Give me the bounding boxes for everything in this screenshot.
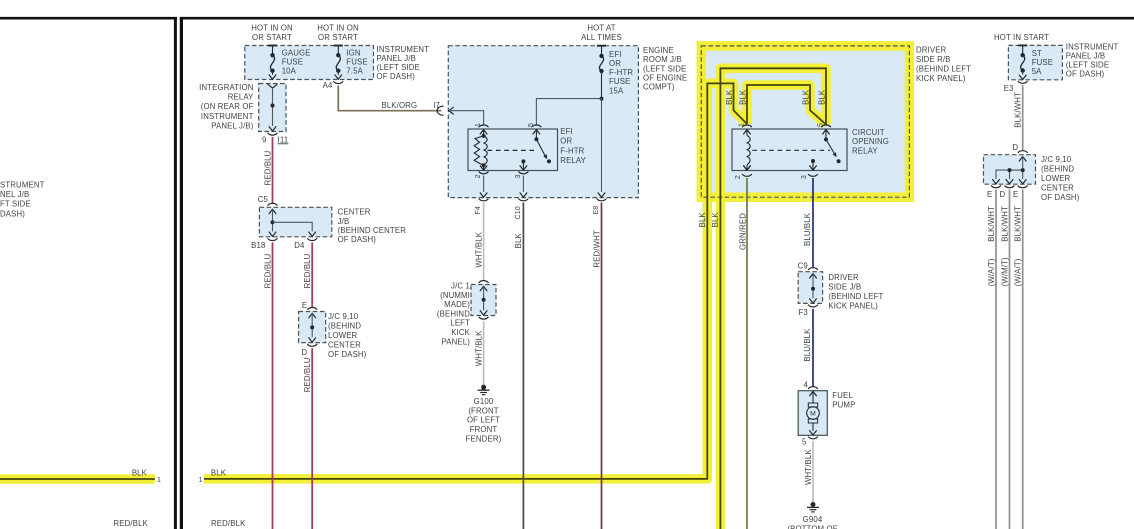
center J/B exit arrow B18	[269, 232, 276, 236]
connector cup C5	[268, 203, 277, 205]
COR switch lead	[825, 130, 827, 140]
COR pin3 exit arrow	[810, 166, 817, 170]
wire: BLK loop pin1 to pin5	[747, 85, 826, 125]
svg-text:1: 1	[198, 477, 202, 484]
wire RED/BLU I11 to C5	[272, 137, 274, 203]
COR coil winding	[746, 130, 748, 136]
svg-text:1: 1	[475, 123, 482, 127]
wire WHT/BLK F4 to J/C 1	[483, 203, 485, 281]
connector cup I7	[437, 106, 443, 115]
svg-text:A4: A4	[323, 81, 333, 90]
svg-text:9: 9	[262, 135, 267, 144]
arrow ign fuse exit	[335, 75, 342, 79]
connector cup D (right J/C)	[1018, 151, 1027, 153]
svg-text:(W/A/T): (W/A/T)	[1014, 258, 1023, 286]
left page right border	[174, 17, 177, 529]
connector cup E8	[597, 199, 606, 201]
driver side J/B internal wire	[812, 274, 814, 299]
wire WHT/BLK J/C1 to G100	[483, 321, 485, 385]
J/C 9,10 right box	[984, 155, 1036, 185]
COR coil entry arrow	[744, 130, 751, 134]
wire BLK/WHT E3 to J/C 9,10	[1022, 85, 1024, 151]
svg-text:RED/WHT: RED/WHT	[592, 230, 601, 268]
J/C 9,10 left exit arrow	[309, 338, 316, 342]
wire BLK/WHT (W/A/T) right	[1022, 190, 1024, 529]
svg-text:C5: C5	[258, 195, 269, 204]
left page top border	[0, 17, 177, 20]
svg-text:E: E	[987, 190, 992, 199]
svg-text:C10: C10	[515, 206, 522, 219]
highlight: BLK wire to relay pin 5	[720, 68, 826, 529]
COR actuation dashed link	[752, 149, 830, 151]
svg-text:(W/A/T): (W/A/T)	[987, 258, 996, 286]
svg-text:BLK: BLK	[725, 89, 734, 105]
fuse GAUGE FUSE 10A	[272, 46, 274, 56]
J/C 9,10 left node	[310, 325, 314, 329]
EFI relay pin3 exit arrow	[520, 166, 527, 170]
COR switch pivot node	[824, 138, 828, 142]
driver side J/B exit arrow	[810, 299, 817, 303]
fuse IGN FUSE 7.5A	[337, 46, 339, 56]
integration relay node	[271, 104, 275, 108]
svg-text:BLK: BLK	[817, 89, 826, 105]
connector cup COR pin 1	[742, 125, 751, 127]
svg-text:DRIVERSIDE R/B(BEHIND LEFTKICK: DRIVERSIDE R/B(BEHIND LEFTKICK PANEL)	[916, 46, 971, 84]
svg-text:BLK: BLK	[132, 469, 148, 478]
svg-text:HOT ATALL TIMES: HOT ATALL TIMES	[581, 23, 622, 42]
connector cup A4	[334, 82, 343, 84]
svg-text:BLK/WHT: BLK/WHT	[987, 206, 996, 242]
internal wire from fuse down to E8	[601, 99, 603, 192]
J/B exit arrow E8	[598, 193, 605, 197]
svg-text:I7: I7	[433, 101, 440, 110]
svg-text:BLU/BLK: BLU/BLK	[803, 212, 812, 246]
wire: BLK V2 to relay pin 5	[720, 68, 826, 529]
highlight: BLK wire to relay pin 1 and bus	[204, 83, 747, 479]
svg-text:HOT IN START: HOT IN START	[994, 33, 1049, 42]
relay box CIRCUIT OPENING RELAY	[732, 129, 847, 171]
EFI relay switch lead	[535, 130, 537, 140]
svg-text:2: 2	[735, 175, 742, 179]
svg-text:INSTRUMENTPANEL J/B(LEFT SIDEO: INSTRUMENTPANEL J/B(LEFT SIDEOF DASH)	[377, 45, 430, 81]
svg-text:GRN/RED: GRN/RED	[738, 213, 747, 250]
J/B exit arrow C10	[520, 193, 527, 197]
svg-text:BLK/ORG: BLK/ORG	[381, 101, 417, 110]
EFI relay pin 3 node	[521, 159, 525, 163]
svg-text:BLK: BLK	[211, 469, 227, 478]
EFI relay coil node top	[482, 134, 486, 138]
integration relay internal wire	[272, 88, 274, 126]
svg-text:C9: C9	[798, 262, 808, 271]
svg-text:BLK: BLK	[738, 89, 747, 105]
center J/B entry arrow	[269, 209, 276, 213]
svg-text:F3: F3	[798, 308, 807, 317]
wire: left page BLK bus	[0, 478, 155, 480]
EFI relay switch blade	[536, 139, 545, 156]
engine room J/B entry arrow (I7)	[449, 107, 453, 114]
J/C 1 node	[482, 298, 486, 302]
COR switch blade	[826, 140, 835, 154]
right J/C exit arrows	[993, 180, 1000, 184]
J/C 9,10 left internal wire	[311, 313, 313, 337]
svg-text:4: 4	[804, 380, 809, 389]
main page left border	[180, 17, 183, 529]
connector cup relay pin 5	[532, 125, 541, 127]
connector cup F4	[479, 199, 488, 201]
main page top border	[180, 17, 1134, 20]
highlight: left page BLK bus	[0, 474, 155, 484]
svg-text:1: 1	[157, 477, 161, 484]
J/C 1 box	[471, 285, 496, 316]
EFI relay switch contact node	[547, 159, 551, 163]
wire RED/BLU below J/C 9,10 to page bottom	[311, 348, 313, 529]
connector cup C10	[519, 199, 528, 201]
svg-text:BLK/WHT: BLK/WHT	[1001, 206, 1010, 242]
wire BLU/BLK F3 to fuel pump	[812, 309, 814, 387]
internal wire from fuse to relay pin 5	[536, 99, 601, 125]
wire BLU/BLK from COR pin 3 to C9	[812, 178, 814, 268]
svg-text:BLK/WHT: BLK/WHT	[1014, 92, 1023, 128]
COR switch entry arrow	[823, 130, 830, 134]
EFI relay switch entry arrow	[533, 130, 540, 134]
COR switch contact node	[837, 159, 841, 163]
svg-text:WHT/BLK: WHT/BLK	[474, 231, 483, 267]
right J/C internal bus	[996, 170, 1023, 179]
EFI relay actuation dashed link	[488, 149, 535, 151]
svg-text:2: 2	[475, 174, 482, 178]
connector cup J/C 1 top	[479, 281, 488, 283]
highlight: BLK loop pin1-pin5	[747, 85, 826, 125]
center J/B node	[271, 220, 275, 224]
svg-text:BLK: BLK	[801, 89, 810, 105]
svg-text:1: 1	[738, 123, 745, 127]
svg-text:BLK: BLK	[514, 233, 523, 249]
connector cup fuel pump pin 5	[808, 437, 817, 439]
svg-text:BLK: BLK	[711, 212, 720, 228]
wire GRN/RED from COR pin 2 to page bottom	[746, 178, 748, 529]
svg-text:FUELPUMP: FUELPUMP	[832, 391, 855, 410]
svg-text:BLU/BLK: BLU/BLK	[803, 328, 812, 362]
ST fuse feed T-bar	[1018, 44, 1027, 46]
svg-text:D: D	[1000, 190, 1006, 199]
EFI relay coil entry arrow	[480, 130, 487, 134]
connector cup D4	[308, 239, 317, 241]
ST fuse exit arrow	[1019, 75, 1026, 79]
EFI relay pin 3 lead	[522, 161, 524, 170]
internal wire from I7 to relay pin 1	[449, 111, 484, 125]
svg-text:INSTRUMENTPANEL J/B(LEFT SIDEO: INSTRUMENTPANEL J/B(LEFT SIDEOF DASH)	[1066, 43, 1119, 79]
svg-text:5: 5	[817, 123, 824, 127]
svg-text:E8: E8	[593, 206, 600, 215]
svg-text:3: 3	[801, 175, 808, 179]
right J/C internal wire down	[1022, 157, 1024, 179]
connector cup F3	[808, 305, 817, 307]
wire RED/BLU from D4 to J/C 9,10	[311, 242, 313, 307]
internal wire pin2 to F4	[483, 175, 485, 192]
connector cup D (J/C 9,10)	[308, 344, 317, 346]
center J/B internal wire down	[272, 209, 274, 231]
connector cup COR pin 5	[821, 125, 830, 127]
integration relay entry chevron	[268, 84, 277, 88]
svg-text:RED/BLU: RED/BLU	[263, 150, 272, 185]
EFI relay coil winding	[484, 136, 488, 165]
svg-text:RED/BLK: RED/BLK	[114, 519, 149, 528]
svg-text:J/C 1(NUMMIMADE)(BEHINDLEFTKIC: J/C 1(NUMMIMADE)(BEHINDLEFTKICKPANEL)	[437, 282, 471, 347]
svg-text:CENTERJ/B(BEHIND CENTEROF DASH: CENTERJ/B(BEHIND CENTEROF DASH)	[338, 208, 407, 244]
internal wire pin3 to C10	[522, 175, 524, 192]
svg-text:BLK: BLK	[698, 212, 707, 228]
wire BLK/WHT (W/A/T) left	[995, 190, 997, 529]
svg-text:3: 3	[515, 174, 522, 178]
ground G904	[811, 502, 816, 507]
instrument panel J/B box (gauge+ign fuses)	[245, 46, 374, 80]
instrument panel J/B box (ST fuse)	[1008, 45, 1062, 79]
center J/B box	[259, 207, 331, 237]
svg-text:D4: D4	[294, 241, 305, 250]
svg-text:M: M	[810, 411, 816, 418]
connector cup COR pin 2	[742, 174, 751, 176]
svg-text:D: D	[1012, 143, 1018, 152]
J/C 1 entry arrow	[480, 286, 487, 290]
connector cup relay pin 2	[479, 172, 488, 174]
connector cup B18	[268, 239, 277, 241]
EFI relay pin2 exit arrow	[480, 166, 487, 170]
integration relay exit arrow	[269, 127, 276, 131]
driver side R/B box fill	[701, 46, 909, 197]
svg-text:RED/BLK: RED/BLK	[211, 519, 246, 528]
svg-text:BLK/WHT: BLK/WHT	[1014, 206, 1023, 242]
right J/C entry arrow	[1019, 157, 1026, 161]
EFI relay coil leads	[483, 130, 485, 136]
svg-text:D: D	[301, 348, 307, 357]
svg-text:G904(BOTTOM OF: G904(BOTTOM OF	[787, 515, 837, 529]
connector cup fuel pump pin 4	[808, 387, 817, 389]
connector cups E D E	[991, 186, 1000, 188]
component FUEL PUMP box	[798, 391, 827, 436]
wire BLK/WHT (W/M/T) middle	[1009, 190, 1011, 529]
connector cup COR pin 3	[808, 174, 817, 176]
fuse ST FUSE 5A	[1022, 45, 1024, 55]
driver side J/B box	[798, 272, 822, 304]
center J/B internal wire to D4	[273, 222, 313, 231]
svg-text:E: E	[302, 301, 307, 310]
svg-text:5: 5	[528, 123, 535, 127]
J/C 1 internal wire	[483, 286, 485, 310]
wire WHT/BLK fuel pump to G904	[812, 441, 814, 503]
svg-text:RED/BLU: RED/BLU	[263, 253, 272, 288]
driver side R/B dashed border	[701, 46, 909, 197]
COR coil exit arrow	[744, 166, 751, 170]
svg-text:HOT IN ONOR START: HOT IN ONOR START	[251, 23, 293, 42]
wire BLK C10 to page bottom	[522, 203, 524, 529]
fuse EFI OR F-HTR FUSE 15A	[601, 46, 603, 56]
svg-text:(W/M/T): (W/M/T)	[1001, 257, 1010, 286]
COR pin 3 node	[811, 159, 815, 163]
ground G100	[481, 385, 486, 390]
svg-text:STRUMENTNEL J/BFT SIDEDASH): STRUMENTNEL J/BFT SIDEDASH)	[0, 181, 45, 219]
svg-text:E3: E3	[1004, 84, 1014, 93]
svg-text:F4: F4	[475, 206, 482, 214]
EFI fuse feed T-bar	[597, 45, 606, 47]
EFI relay switch pivot node	[534, 137, 538, 141]
connector cup C9	[808, 268, 817, 270]
driver side R/B highlight outline	[701, 46, 909, 197]
integration relay box	[259, 84, 286, 132]
svg-text:WHT/BLK: WHT/BLK	[804, 449, 813, 485]
connector cup E	[308, 308, 317, 310]
J/C 1 exit arrow	[480, 311, 487, 315]
connector cup E3	[1018, 81, 1027, 83]
junction node EFI fuse	[600, 97, 604, 101]
right J/C node D	[1008, 168, 1012, 172]
arrow gauge fuse to integration relay	[269, 75, 276, 79]
svg-text:ENGINEROOM J/B(LEFT SIDEOF ENG: ENGINEROOM J/B(LEFT SIDEOF ENGINECOMPT)	[643, 46, 687, 91]
J/B exit arrow F4	[480, 193, 487, 197]
svg-text:J/C 9,10(BEHINDLOWERCENTEROF D: J/C 9,10(BEHINDLOWERCENTEROF DASH)	[1041, 155, 1080, 202]
fuel pump motor leads	[812, 391, 814, 403]
svg-text:B18: B18	[251, 241, 265, 250]
J/C 9,10 left box	[299, 312, 326, 343]
EFI relay coil node bottom	[482, 163, 486, 167]
COR pin2 exit arrow	[744, 166, 751, 170]
svg-text:5: 5	[802, 438, 807, 447]
svg-text:G100(FRONTOF LEFTFRONTFENDER): G100(FRONTOF LEFTFRONTFENDER)	[466, 397, 502, 443]
fuel pump exit arrow	[810, 431, 817, 435]
connector cup relay pin 1	[479, 125, 488, 127]
wire RED/BLU from B18 to page bottom	[272, 242, 274, 529]
svg-text:E: E	[1013, 190, 1018, 199]
J/C 9,10 left entry arrow	[309, 313, 316, 317]
engine room J/B box	[448, 46, 638, 198]
relay box EFI OR F-HTR RELAY	[468, 129, 558, 171]
right J/C node E	[1021, 168, 1025, 172]
svg-text:RED/BLU: RED/BLU	[303, 253, 312, 288]
svg-text:HOT IN ONOR START: HOT IN ONOR START	[317, 23, 359, 42]
svg-text:WHT/BLK: WHT/BLK	[474, 330, 483, 366]
COR pin 3 lead	[812, 161, 814, 171]
center J/B exit arrow D4	[309, 232, 316, 236]
fuel pump motor M	[807, 407, 820, 420]
fuel pump motor brushes	[808, 403, 817, 407]
wire BLK/ORG from A4 to I7	[338, 85, 441, 110]
connector cup J/C 1 bottom	[479, 317, 488, 319]
gauge fuse feed T-bar	[268, 45, 277, 47]
wire RED/WHT E8 to page bottom	[601, 203, 603, 529]
driver side J/B node	[811, 287, 815, 291]
fuel pump entry arrow	[810, 391, 817, 395]
svg-text:I11: I11	[278, 135, 289, 144]
EFI relay coil resistor zigzag	[474, 136, 483, 165]
connector cup I11	[268, 133, 277, 135]
wire: BLK bus + V1 to relay pin 1	[204, 83, 747, 479]
driver side J/B entry arrow	[810, 274, 817, 278]
svg-text:INTEGRATIONRELAY(ON REAR OFINS: INTEGRATIONRELAY(ON REAR OFINSTRUMENTPAN…	[199, 83, 254, 130]
ign fuse feed T-bar	[334, 45, 343, 47]
svg-text:J/C 9,10(BEHINDLOWERCENTEROF D: J/C 9,10(BEHINDLOWERCENTEROF DASH)	[328, 312, 367, 359]
connector cup relay pin 3	[519, 172, 528, 174]
svg-text:RED/BLU: RED/BLU	[303, 357, 312, 392]
svg-text:DRIVERSIDE J/B(BEHIND LEFTKICK: DRIVERSIDE J/B(BEHIND LEFTKICK PANEL)	[828, 273, 883, 311]
